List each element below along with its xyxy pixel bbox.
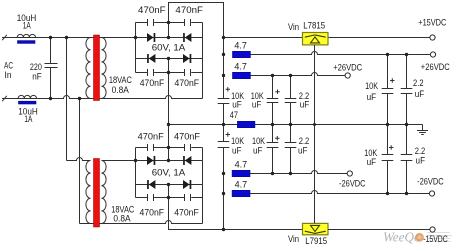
capacitor C7 470nF [185, 144, 191, 151]
capacitor C5 470nF [185, 69, 191, 76]
wire bridge1 - output to 0V rail [168, 59, 170, 125]
terminal -26VDC left [347, 171, 352, 176]
junction dot negative rail [222, 228, 225, 231]
wire negative feed vertical [223, 125, 225, 230]
bridge 2 frame wires [136, 148, 203, 224]
diode D7 [147, 180, 155, 189]
svg-text:Vin: Vin [288, 234, 299, 244]
transformer T2 windings [86, 161, 106, 224]
diode D5 [147, 156, 155, 165]
ground symbol [417, 125, 428, 135]
svg-text:uF: uF [415, 89, 425, 99]
capacitor C3 470nF [185, 19, 191, 26]
regulator U2 L7915 [303, 223, 329, 234]
diode D4 [183, 54, 191, 63]
svg-text:uF: uF [298, 145, 308, 155]
wire T2 secondary top [102, 160, 136, 162]
svg-text:470nF: 470nF [175, 78, 200, 88]
label L2 value [18, 107, 38, 125]
labels bridge2 cap values [138, 131, 201, 217]
capacitor C16 10K uF [267, 125, 280, 174]
label C19 value [415, 146, 426, 166]
label T1 secondary [109, 75, 132, 95]
label U1 [288, 21, 325, 32]
svg-text:1A: 1A [24, 114, 32, 124]
junction dots 0V rail [167, 123, 408, 126]
wire T2 bottom return with hop [80, 221, 203, 224]
capacitor C9 470nF [185, 194, 191, 201]
watermark WeeQo [383, 230, 452, 245]
svg-text:+26VDC: +26VDC [421, 62, 450, 72]
transformer T2 core [94, 159, 100, 228]
junction dots bridge1 [167, 21, 170, 74]
wire line D to -26VDC right [250, 191, 430, 194]
svg-text:470nF: 470nF [138, 5, 166, 15]
label AC In [4, 61, 13, 81]
svg-text:-26VDC: -26VDC [339, 178, 366, 188]
svg-text:uF: uF [232, 145, 242, 155]
svg-text:470nF: 470nF [138, 131, 164, 141]
svg-text:470nF: 470nF [175, 5, 203, 15]
wire vertical B to T2 primary bottom [79, 99, 81, 224]
svg-text:470nF: 470nF [174, 207, 199, 217]
wire bridge1 + output to top rail [169, 3, 224, 38]
regulator U1 L7815 [303, 33, 329, 45]
terminal +26VDC right [430, 52, 435, 57]
wire line C to -26VDC left [250, 171, 348, 174]
inductor L1 10uH [17, 34, 35, 43]
svg-text:1A: 1A [23, 20, 31, 30]
diode D1 [147, 33, 155, 42]
terminal -15VDC [430, 227, 435, 232]
label L1 value [17, 13, 37, 30]
capacitor C14 2.2 uF right [401, 55, 413, 125]
terminal +26VDC left [345, 73, 350, 78]
svg-text:4.7: 4.7 [234, 41, 247, 51]
junction dots line A [222, 53, 408, 56]
wire positive feed vertical [223, 38, 225, 125]
resistor R1 4.7 [233, 51, 251, 57]
wire regulator U1 input [224, 37, 303, 39]
capacitor C11 10K uF [267, 76, 280, 125]
terminal -26VDC right [429, 191, 434, 196]
diode D8 [183, 180, 191, 189]
svg-text:18VAC: 18VAC [109, 75, 132, 85]
junction dots bottom AC line [49, 97, 81, 100]
resistor R3 4.7 [232, 170, 250, 176]
svg-text:uF: uF [416, 155, 426, 165]
svg-text:47: 47 [230, 110, 238, 120]
junction dots bridge2 [134, 146, 170, 199]
wire U2 ground pin [314, 125, 316, 224]
junction dots top AC line [49, 36, 225, 39]
wire bridge2 - output to negative rail [169, 185, 303, 230]
transformer T1 windings [86, 38, 106, 99]
diode D2 [183, 33, 191, 42]
svg-text:uF: uF [367, 92, 377, 102]
svg-text:nF: nF [32, 72, 42, 82]
svg-text:2.2: 2.2 [413, 78, 424, 88]
label T2 secondary [111, 204, 134, 223]
svg-text:2.2: 2.2 [415, 146, 426, 156]
svg-text:470nF: 470nF [140, 78, 165, 88]
wire AC input bottom line with hops [2, 96, 203, 102]
svg-text:4.7: 4.7 [235, 160, 248, 170]
resistor R4 4.7 [232, 190, 250, 196]
wire U1 output to +15VDC [328, 37, 430, 39]
svg-text:220: 220 [30, 62, 42, 72]
labels bridge1 cap values [138, 5, 203, 88]
svg-text:0.8A: 0.8A [112, 85, 129, 95]
wire bridge2 + output to 0V rail [168, 125, 170, 161]
transformer T1 core [94, 35, 100, 101]
diode D3 [147, 54, 155, 63]
capacitor C12 2.2 uF [285, 76, 297, 125]
junction dots line C [222, 172, 292, 175]
label C14 value [413, 78, 425, 99]
svg-text:uF: uF [252, 100, 262, 110]
capacitor C13 10K uF right [382, 55, 395, 125]
label C13 value [365, 81, 378, 102]
svg-text:Vin: Vin [288, 22, 299, 32]
terminal +15VDC [430, 35, 435, 40]
capacitor C1 220nF [45, 38, 58, 99]
junction dots line B [222, 74, 292, 77]
wire U1 ground pin [314, 45, 316, 125]
resistor R5 47 [237, 121, 255, 127]
wire 0V rail [169, 124, 423, 126]
svg-text:L7815: L7815 [303, 21, 325, 31]
capacitor C6 470nF [148, 144, 154, 151]
capacitor C19 2.2 uF right [401, 125, 413, 194]
bridge 1 frame wires [136, 23, 203, 99]
wire jog to T2 primary with hop [67, 158, 91, 161]
inductor L2 10uH [18, 95, 36, 104]
svg-text:uF: uF [232, 100, 242, 110]
capacitor C10 10K uF [218, 87, 230, 103]
wire line A to +26VDC right [250, 52, 430, 55]
svg-text:uF: uF [253, 145, 263, 155]
label C10 value [231, 91, 244, 110]
label U2 [288, 234, 327, 246]
svg-text:-26VDC: -26VDC [417, 176, 444, 186]
label C16 value [252, 136, 265, 155]
label C18 value [364, 148, 377, 167]
capacitor C4 470nF [148, 69, 154, 76]
svg-text:4.7: 4.7 [235, 180, 248, 190]
wire U2 output to -15VDC [328, 229, 430, 231]
svg-text:L7915: L7915 [305, 236, 327, 246]
svg-text:470nF: 470nF [174, 131, 200, 141]
svg-text:uF: uF [300, 100, 310, 110]
svg-text:0.8A: 0.8A [113, 214, 130, 224]
svg-text:In: In [5, 70, 12, 80]
svg-text:+26VDC: +26VDC [333, 62, 362, 72]
capacitor C17 2.2 uF [285, 125, 297, 174]
label C15 value [231, 136, 244, 155]
svg-text:10K: 10K [365, 81, 378, 91]
svg-text:+15VDC: +15VDC [418, 18, 446, 28]
svg-text:60V, 1A: 60V, 1A [152, 43, 186, 53]
svg-text:60V, 1A: 60V, 1A [152, 168, 186, 178]
svg-text:uF: uF [367, 157, 377, 167]
label C12 value [299, 91, 310, 110]
junction dots line D [222, 192, 408, 195]
label C17 value [298, 136, 309, 155]
capacitor C8 470nF [148, 194, 154, 201]
svg-text:AC: AC [4, 61, 13, 71]
capacitor C2 470nF [148, 19, 154, 26]
svg-text:-15VDC: -15VDC [423, 234, 448, 244]
capacitor C18 10K uF right [382, 125, 394, 194]
svg-text:470nF: 470nF [140, 207, 165, 217]
capacitor C15 10K uF [218, 132, 230, 147]
wire vertical A to T2 primary [66, 38, 68, 161]
label C11 value [251, 91, 264, 110]
wire AC input top line [2, 35, 136, 40]
wire line B to +26VDC left [250, 73, 345, 76]
label C1 value [30, 62, 42, 82]
resistor R2 4.7 [233, 72, 251, 78]
diode D6 [183, 156, 191, 165]
svg-text:4.7: 4.7 [234, 61, 247, 71]
